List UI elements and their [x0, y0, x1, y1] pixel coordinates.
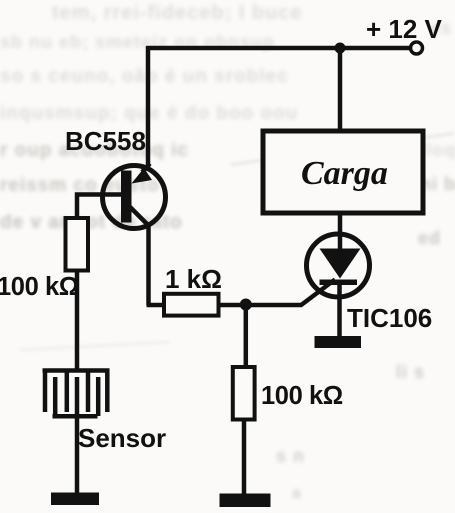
top teeth	[43, 369, 48, 412]
wire vertical rail to Carga	[338, 48, 343, 132]
ground middle	[220, 494, 271, 508]
sensor interdigitated electrodes	[43, 369, 110, 416]
svg-text:100 kΩ: 100 kΩ	[261, 382, 343, 410]
node junction dot top	[335, 43, 346, 54]
bottom teeth	[53, 377, 58, 416]
SCR TIC106	[307, 234, 370, 297]
wire top rail	[147, 46, 410, 51]
svg-text:+ 12 V: + 12 V	[366, 14, 443, 44]
wire left down to R1	[75, 193, 80, 219]
node junction dot	[240, 299, 252, 311]
wire R3 to ground	[242, 420, 247, 496]
wire gate diagonal	[301, 280, 336, 306]
faint bleed-through background text	[52, 2, 303, 25]
wire sensor to ground	[75, 416, 80, 494]
bottom electrode bar	[53, 414, 98, 419]
svg-text:Sensor: Sensor	[78, 423, 166, 453]
svg-text:BC558: BC558	[65, 126, 146, 156]
wire collector to R2	[147, 303, 165, 308]
wire node to gate	[245, 303, 302, 308]
wire R1 to sensor	[75, 271, 80, 370]
resistor R2 1k	[164, 294, 219, 316]
wire base of Q1 to left	[75, 192, 121, 197]
svg-text:100 kΩ: 100 kΩ	[0, 273, 79, 301]
resistor R3 100k	[233, 367, 255, 420]
Carga load box	[263, 131, 423, 213]
terminal +12V	[411, 42, 423, 54]
resistor R1 100k	[66, 218, 89, 271]
svg-text:Carga: Carga	[301, 155, 388, 192]
wire Carga to SCR	[338, 213, 343, 252]
wire left vertical from rail to transistor	[146, 46, 151, 168]
svg-text:1 kΩ: 1 kΩ	[165, 264, 222, 294]
wire SCR cathode down	[337, 284, 342, 338]
top electrode bar	[43, 368, 110, 373]
collector lead	[129, 206, 149, 226]
svg-text:TIC106: TIC106	[347, 303, 432, 333]
wire node down to R3	[244, 304, 249, 367]
ground left	[51, 493, 99, 506]
emitter lead with arrow	[142, 164, 150, 173]
wire R2 to node	[219, 303, 251, 308]
transistor Q1 BC558	[103, 164, 166, 229]
wire collector down	[146, 224, 151, 305]
ground TIC	[315, 336, 362, 348]
